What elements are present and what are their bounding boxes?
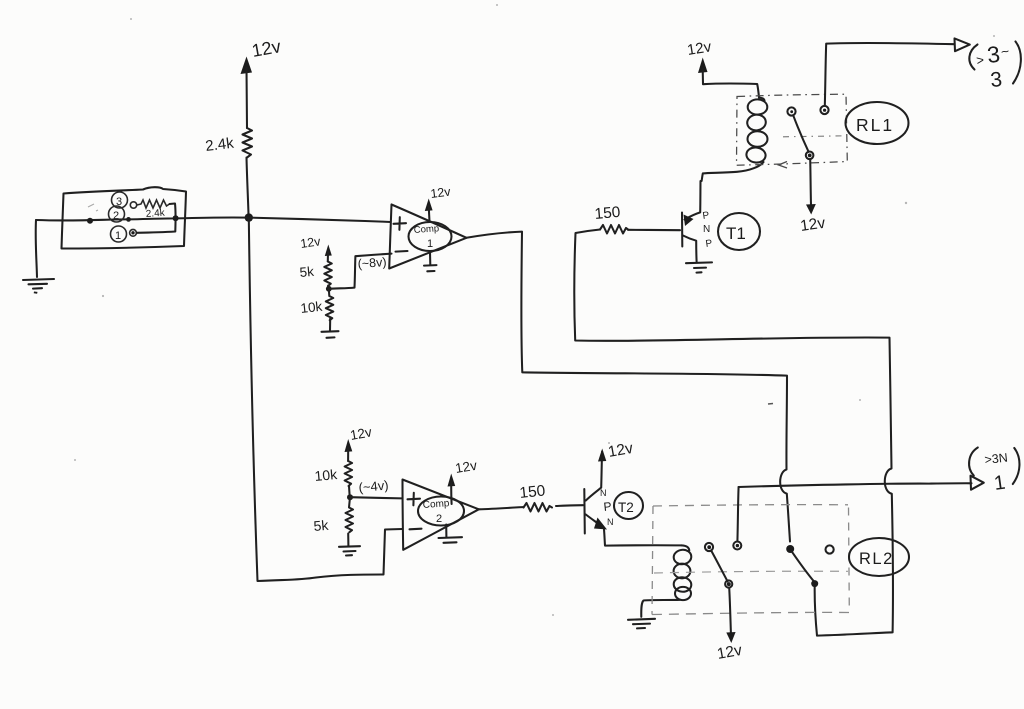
wire: internal resistor to pin1 xyxy=(137,204,176,233)
relay RL2 switch SW2a xyxy=(705,542,741,588)
svg-text:2.4k: 2.4k xyxy=(145,208,166,220)
svg-text:2.4k: 2.4k xyxy=(204,135,235,155)
svg-text:12v: 12v xyxy=(454,458,478,476)
resistor R5 150 (T1 base) xyxy=(594,204,628,234)
svg-text:12v: 12v xyxy=(349,424,373,443)
resistor R3 5K (divider 1) xyxy=(299,262,332,286)
ground (sensor) xyxy=(23,279,54,294)
ground (divider 1) xyxy=(322,319,339,338)
scan specks xyxy=(74,4,995,616)
svg-text:1: 1 xyxy=(993,472,1007,495)
wire: tap to Comp1 inverting input xyxy=(329,254,392,289)
svg-text:3: 3 xyxy=(989,68,1003,92)
transistor Q1 T1 (PNP) xyxy=(682,181,760,262)
svg-text:>: > xyxy=(975,52,985,68)
relay RL1 coil L1 xyxy=(702,98,768,182)
svg-text:2: 2 xyxy=(436,513,442,525)
power 12V (Comp1) xyxy=(425,185,452,222)
label RL2 xyxy=(849,538,909,576)
resistor R8 150 (T2 base) xyxy=(519,482,552,511)
svg-text:Comp: Comp xyxy=(413,223,439,236)
svg-text:(~4v): (~4v) xyxy=(358,477,389,495)
svg-text:10k: 10k xyxy=(314,466,339,484)
ground (RL2 coil) xyxy=(628,619,655,629)
resistor R1 2.4K pull-up xyxy=(204,128,252,158)
power 12V (RL1 coil) xyxy=(686,38,759,97)
svg-text:12v: 12v xyxy=(716,642,744,663)
node A junction xyxy=(245,213,253,221)
svg-text:Comp: Comp xyxy=(422,498,450,511)
svg-text:12v: 12v xyxy=(250,36,282,61)
wire: R1 to node A xyxy=(247,158,249,218)
power 12V top-left xyxy=(241,36,283,128)
op-amp U2 Comp2 xyxy=(403,480,479,550)
svg-text:1: 1 xyxy=(115,230,121,242)
output label (>3N) 1 xyxy=(969,448,1019,495)
output arrow 3 xyxy=(955,38,970,51)
wire: sensor to ground xyxy=(36,220,37,277)
wire: R5 to T1 base xyxy=(628,229,680,231)
op-amp U1 Comp1 xyxy=(389,205,466,269)
svg-text:N: N xyxy=(607,517,614,527)
ground (T1) xyxy=(686,262,712,272)
svg-text:N: N xyxy=(600,488,607,498)
power 12V (divider 2) xyxy=(345,424,374,461)
ground (Comp2) xyxy=(439,525,463,543)
svg-text:P: P xyxy=(705,238,713,250)
junction dot (sensor left lead) xyxy=(87,218,93,224)
svg-text:2: 2 xyxy=(113,210,119,222)
power 12V (Comp2) xyxy=(448,458,479,504)
wire: Comp1 output to RL2 common xyxy=(467,232,791,542)
stray mark xyxy=(768,403,773,406)
relay RL2 coil L2 xyxy=(641,545,692,616)
power 12V (RL1 contact) xyxy=(799,159,826,235)
sensor pin 3 xyxy=(112,192,137,208)
sensor pin 1 xyxy=(111,226,137,242)
svg-text:>3N: >3N xyxy=(984,451,1009,467)
ground (Comp1) xyxy=(424,253,437,272)
svg-text:RL1: RL1 xyxy=(856,115,894,135)
wire: node A down to Comp2 input (long left vertical + bottom run) xyxy=(249,218,402,581)
output arrow 1 xyxy=(971,476,984,490)
wire: Comp2 output to R8 xyxy=(479,507,524,509)
wire: T1 base feed (left segment, down, across, down to RL2 sw) xyxy=(574,230,893,636)
svg-text:(~8v): (~8v) xyxy=(357,255,387,271)
svg-text:12v: 12v xyxy=(686,38,713,59)
output label (>3N) 3 xyxy=(969,41,1021,92)
svg-text:10k: 10k xyxy=(300,299,323,316)
label RL1 xyxy=(846,102,909,144)
svg-text:N: N xyxy=(703,224,710,235)
wire: R8 to T2 base xyxy=(556,504,583,507)
sensor pin 2 xyxy=(109,206,131,222)
transistor Q2 T2 (NPN) xyxy=(584,440,643,534)
svg-text:T1: T1 xyxy=(726,224,746,243)
relay RL1 case (dashed) xyxy=(737,94,848,168)
relay RL2 case (dashed) xyxy=(652,505,850,615)
power 12V (divider 1) xyxy=(299,234,331,261)
resistor R4 10K (divider 1) xyxy=(300,289,334,320)
power 12V (SW2a) xyxy=(716,588,744,663)
wire: SW2a NO contact up to output 1 line xyxy=(737,487,738,542)
svg-text:P: P xyxy=(702,210,710,222)
svg-text:12v: 12v xyxy=(607,440,635,461)
svg-text:150: 150 xyxy=(594,204,622,223)
wire: T2 emitter to RL2 coil xyxy=(604,530,682,546)
svg-text:12v: 12v xyxy=(299,234,322,251)
faint pencil mark xyxy=(88,204,98,211)
wire: output 1 xyxy=(739,483,972,487)
svg-text:150: 150 xyxy=(519,482,547,502)
wire: tap to Comp2 + input xyxy=(350,497,402,498)
resistor R6 10K (divider 2) xyxy=(314,461,352,486)
ground (divider 2) xyxy=(339,534,360,556)
node (~4v) tap xyxy=(347,477,389,500)
svg-text:5k: 5k xyxy=(299,264,315,280)
svg-text:T2: T2 xyxy=(618,500,634,515)
svg-text:5k: 5k xyxy=(313,517,330,534)
junction dot (internal wire on node row) xyxy=(173,215,179,221)
svg-text:1: 1 xyxy=(427,238,433,250)
resistor R2 2.4K (inside sensor) xyxy=(137,200,170,220)
svg-text:~: ~ xyxy=(999,43,1010,60)
resistor R7 5K (divider 2) xyxy=(313,497,353,534)
relay RL1 switch SW1 xyxy=(787,106,828,159)
svg-text:RL2: RL2 xyxy=(859,550,894,568)
wire: main node A row (sensor to Comp1 +) xyxy=(36,217,391,222)
node (~8v) tap xyxy=(326,255,387,292)
sensor S1 case xyxy=(62,187,187,248)
svg-text:P: P xyxy=(603,499,612,514)
svg-text:12v: 12v xyxy=(799,215,826,235)
svg-text:12v: 12v xyxy=(430,185,452,201)
wire: RL1 NO contact to output 3 xyxy=(825,43,955,106)
relay RL2 switch SW2b xyxy=(786,545,834,587)
